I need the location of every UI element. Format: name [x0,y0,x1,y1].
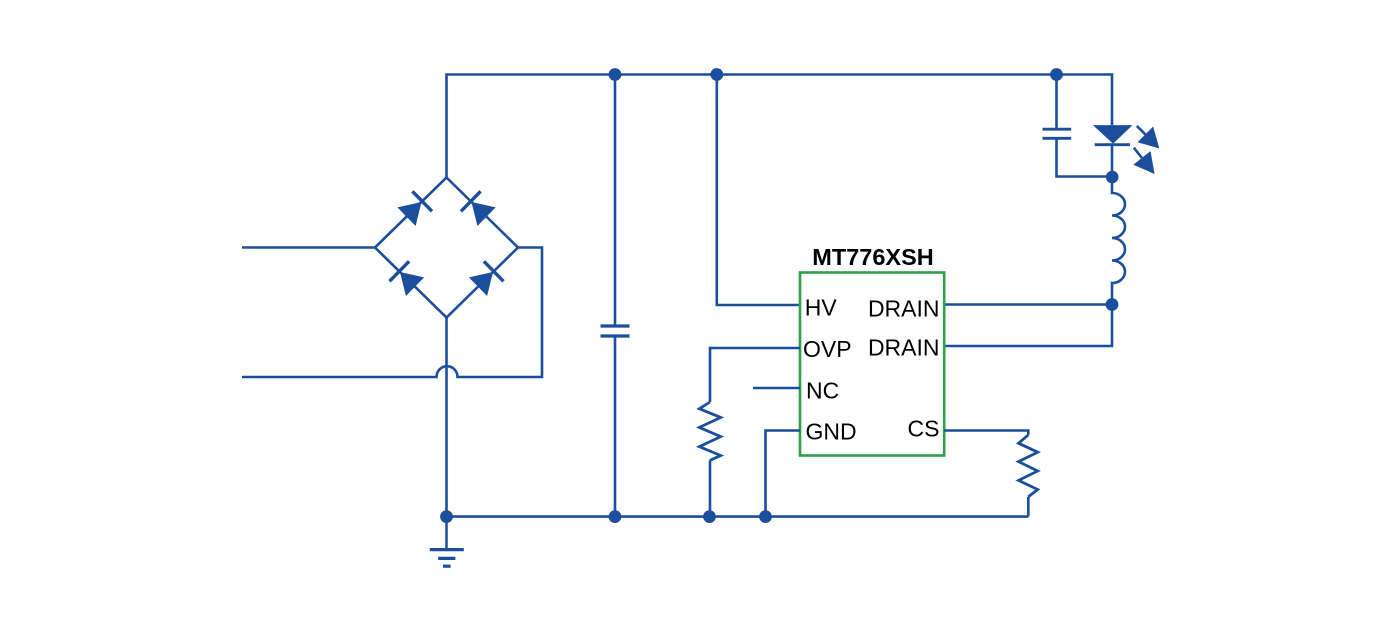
wire: OVP pin to R1 top [710,348,800,402]
resistor R2 (current sense) zigzag [1019,435,1038,497]
junction: top rail / C1 [609,68,622,81]
wire: HV pin riser to top rail [717,75,800,306]
svg-text:CS: CS [908,416,940,442]
junction: top rail / snubber branch [1050,68,1063,81]
wire: LED cathode to node [1111,145,1114,177]
diode D1 (bridge top-left) [397,191,432,226]
wire: DRAIN pin 1 to L1 bottom node [944,303,1112,306]
diode D4 (bridge bottom-right) [469,261,504,296]
capacitor C2 snubber: top lead [1055,75,1058,130]
junction: ground rail / R1 bottom [703,510,716,523]
junction: ground rail / GND pin wire [759,510,772,523]
wire: bridge - output down to ground rail (passes through hop gap) [445,318,448,517]
wire: ground rail [447,515,1029,518]
LED D5 cathode bar [1095,143,1130,146]
wire: DRAIN pin 2 riser to L1 bottom node [944,305,1112,347]
junction: ground rail / C1 bottom [609,510,622,523]
svg-text:DRAIN: DRAIN [868,295,940,321]
junction: top rail / HV riser [710,68,723,81]
svg-text:MT776XSH: MT776XSH [812,244,933,270]
svg-text:DRAIN: DRAIN [868,335,940,361]
svg-text:GND: GND [806,419,857,445]
wire: NC pin stub [753,387,800,390]
diode D2 (bridge top-right) [461,191,496,226]
capacitor C1 bulk: bottom lead [614,336,617,517]
LED light arrow 2 [1133,148,1154,174]
wire: bridge + output up and along top DC rail to LED anode [447,75,1113,178]
resistor R1 (OVP) zigzag [699,402,720,460]
bridge rectifier diamond wiring [375,178,518,318]
wire: AC input line 2 (lower left) with hop over bridge-negative wire, to bridge right vertex [242,248,542,378]
svg-text:NC: NC [806,378,839,404]
LED D5 triangle [1093,125,1133,144]
svg-text:OVP: OVP [803,336,852,362]
wire: GND pin to ground rail [766,431,801,517]
IC U1 MT776XSH package outline [800,273,944,456]
junction: LED cathode / C2 / L1 node [1106,171,1119,184]
capacitor C1 bulk: top lead [614,75,617,327]
svg-text:HV: HV [805,295,838,321]
capacitor C1 bulk: plates [601,326,630,336]
wire: CS pin to R2 top [944,431,1028,435]
wire: R1 bottom lead to ground rail [709,460,712,516]
wire: R2 bottom lead to ground rail [1027,497,1030,517]
diode D3 (bridge bottom-left) [390,261,425,296]
junction: L1 bottom / DRAIN node [1106,298,1119,311]
capacitor C2 snubber: bottom lead to LED cathode node [1057,138,1113,176]
junction: ground rail / bridge negative (ground node) [440,510,453,523]
ground symbol [430,517,464,567]
wire: AC input line 1 (upper left) [242,246,375,249]
inductor L1 [1112,177,1125,305]
LED light arrow 1 [1137,126,1160,149]
capacitor C2 snubber: plates [1043,129,1072,138]
